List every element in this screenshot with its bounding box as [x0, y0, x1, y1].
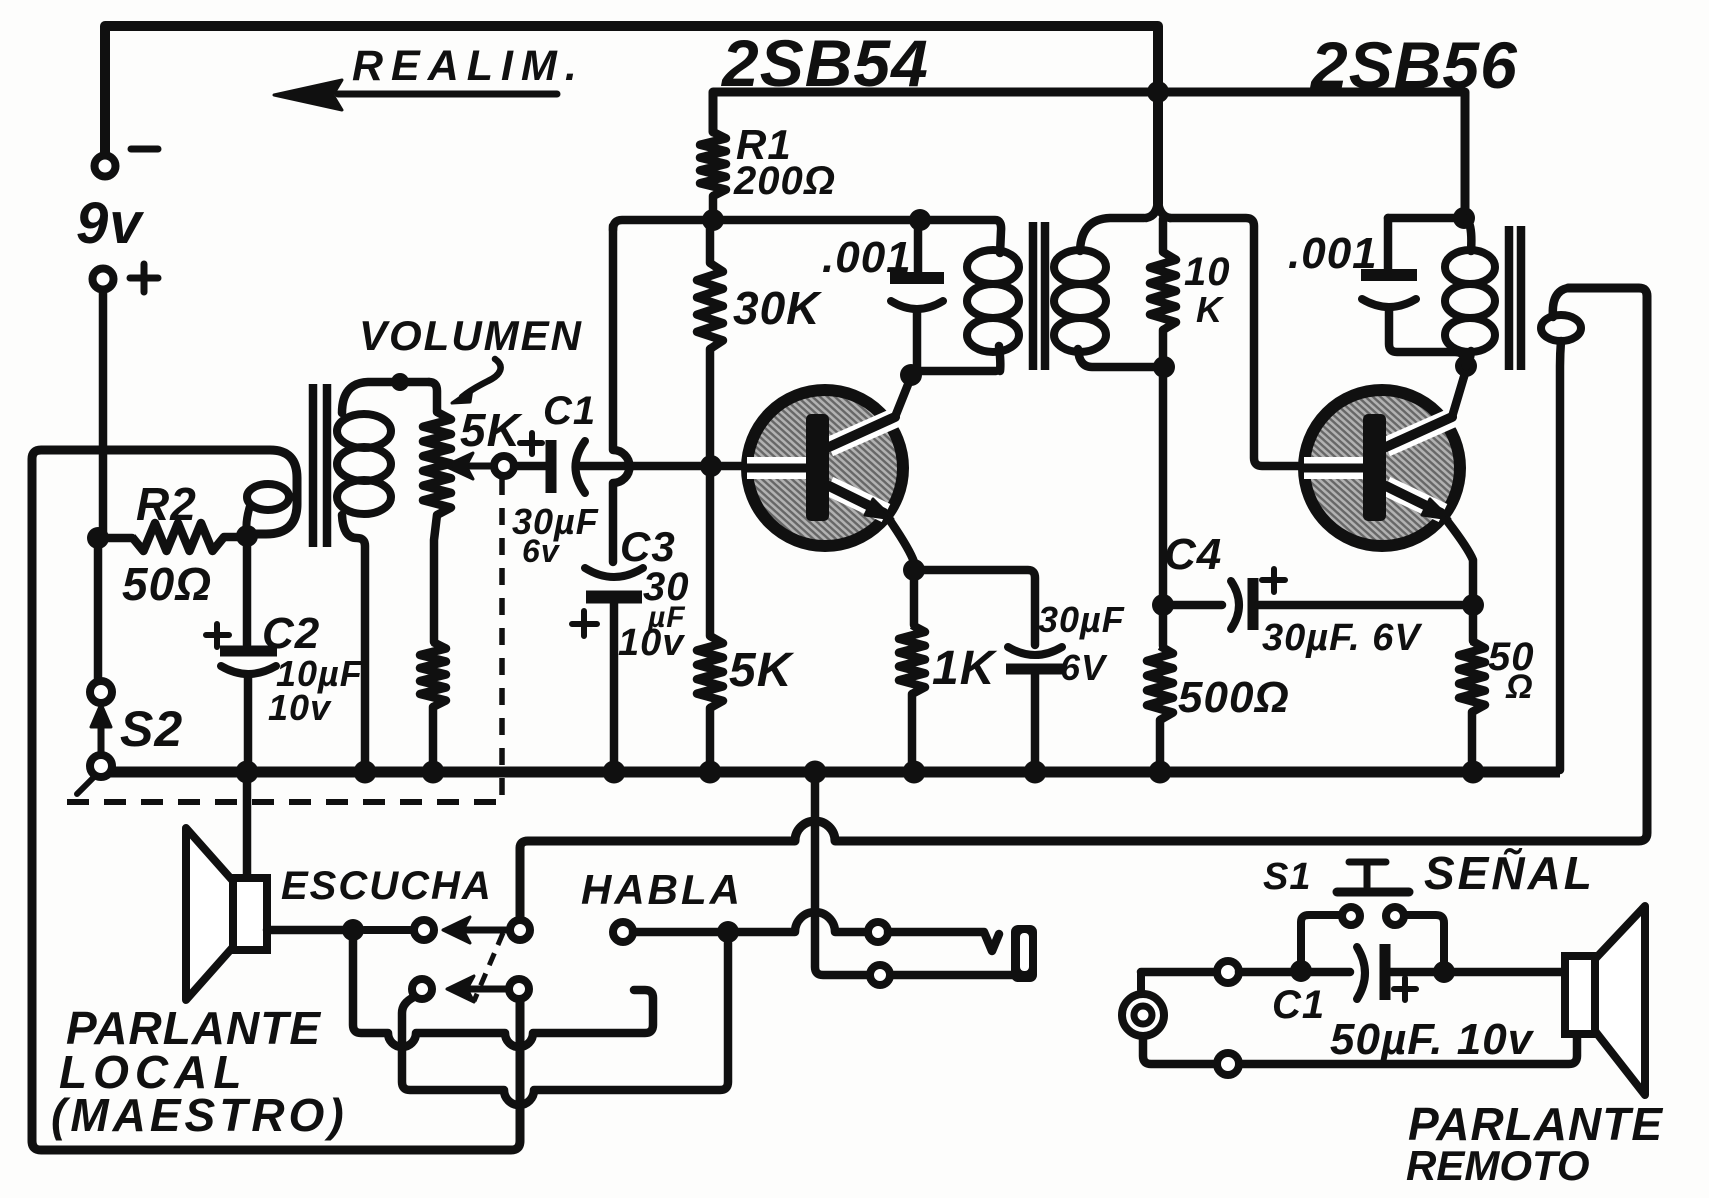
svg-text:5K: 5K — [460, 404, 523, 456]
svg-text:30µF. 6V: 30µF. 6V — [1262, 617, 1422, 659]
svg-text:.001: .001 — [1288, 229, 1378, 278]
svg-text:50µF. 10v: 50µF. 10v — [1330, 1015, 1535, 1064]
svg-text:C4: C4 — [1164, 530, 1222, 579]
svg-text:9v: 9v — [76, 191, 144, 256]
svg-text:1K: 1K — [932, 642, 998, 695]
svg-text:50Ω: 50Ω — [122, 558, 212, 610]
svg-text:C1: C1 — [1272, 983, 1325, 1027]
svg-text:30K: 30K — [733, 282, 822, 334]
svg-text:30µF: 30µF — [1038, 599, 1125, 640]
svg-text:6V: 6V — [1060, 647, 1108, 688]
svg-text:R2: R2 — [136, 478, 197, 530]
svg-text:200Ω: 200Ω — [733, 159, 836, 203]
svg-text:(MAESTRO): (MAESTRO) — [51, 1089, 348, 1141]
svg-text:C2: C2 — [262, 609, 320, 658]
svg-text:10v: 10v — [268, 687, 332, 728]
svg-text:SEÑAL: SEÑAL — [1424, 847, 1595, 899]
svg-text:HABLA: HABLA — [581, 866, 743, 913]
svg-text:VOLUMEN: VOLUMEN — [359, 312, 583, 359]
svg-text:ESCUCHA: ESCUCHA — [281, 864, 493, 908]
svg-text:S2: S2 — [120, 701, 183, 757]
svg-text:REALIM.: REALIM. — [352, 42, 585, 90]
svg-text:10: 10 — [1184, 250, 1231, 294]
svg-text:Ω: Ω — [1505, 668, 1534, 706]
svg-text:C3: C3 — [620, 523, 676, 570]
svg-text:.001: .001 — [822, 233, 912, 282]
svg-text:6v: 6v — [522, 533, 561, 569]
svg-text:10v: 10v — [618, 622, 685, 664]
svg-text:500Ω: 500Ω — [1178, 673, 1290, 722]
svg-text:C1: C1 — [543, 389, 596, 433]
svg-text:5K: 5K — [729, 644, 795, 697]
svg-text:K: K — [1196, 289, 1225, 330]
svg-text:REMOTO: REMOTO — [1406, 1142, 1590, 1189]
svg-text:S1: S1 — [1263, 856, 1311, 898]
